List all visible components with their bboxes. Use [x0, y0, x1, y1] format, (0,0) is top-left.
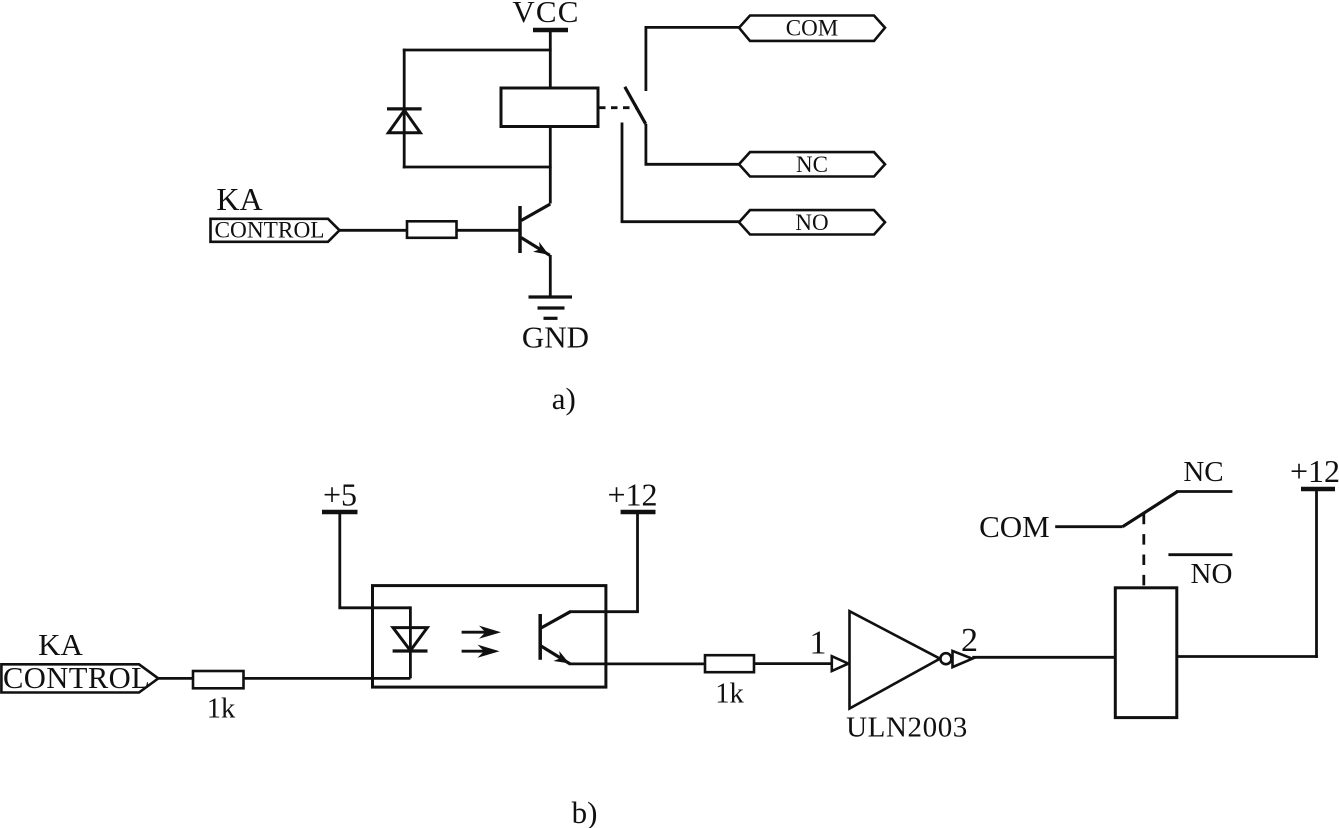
wire emitter out: [569, 663, 705, 666]
power flag +12 (middle): [607, 477, 657, 513]
wire diode branch vertical: [403, 49, 406, 169]
relay actuation dashed link: [599, 106, 637, 109]
wire emitter to ground: [549, 255, 552, 298]
svg-text:KA: KA: [216, 181, 262, 217]
connector NO: [739, 210, 885, 235]
connector CONTROL (b): [1, 661, 158, 695]
ground: [529, 297, 573, 318]
wire bottom horizontal of diode loop: [403, 166, 552, 169]
LED of optocoupler: [393, 606, 428, 678]
connector NC: [739, 152, 885, 177]
power flag VCC: [512, 0, 579, 30]
svg-text:CONTROL: CONTROL: [3, 661, 150, 695]
svg-text:1k: 1k: [207, 694, 236, 725]
wire +5 down: [338, 512, 341, 608]
svg-text:a): a): [552, 381, 576, 416]
wire +5 to LED anode: [338, 606, 410, 609]
switch blade (b): [1123, 492, 1178, 527]
svg-text:+12: +12: [607, 477, 657, 513]
relay coil K1: [501, 88, 598, 127]
svg-text:NC: NC: [1183, 456, 1223, 488]
output arrowhead pin 2: [953, 651, 973, 667]
optocoupler U1 body: [373, 586, 606, 688]
wire +12 down to collector: [636, 512, 639, 612]
wire top horizontal: [403, 49, 552, 52]
switch blade: [625, 87, 646, 124]
svg-text:COM: COM: [786, 15, 838, 40]
wire NC lead: [645, 124, 740, 165]
svg-text:1k: 1k: [715, 678, 744, 709]
wire control to R1b: [158, 677, 193, 680]
wire VCC to relay coil: [549, 30, 552, 90]
connector COM: [739, 15, 885, 41]
svg-text:KA: KA: [38, 627, 83, 662]
phototransistor of optocoupler: [540, 612, 570, 664]
svg-text:1: 1: [810, 625, 827, 662]
wire to inverter input: [754, 662, 832, 665]
svg-text:NO: NO: [795, 210, 828, 235]
inverter U2 ULN2003: [850, 611, 941, 708]
svg-text:COM: COM: [979, 509, 1050, 544]
transistor Q1: [520, 204, 550, 255]
wire control to resistor: [340, 229, 408, 232]
connector CONTROL (a): [211, 217, 340, 243]
NO contact stub: [1168, 553, 1232, 556]
svg-text:CONTROL: CONTROL: [215, 217, 325, 243]
wire COM stub: [1055, 525, 1122, 528]
resistor 1k input: [193, 671, 244, 688]
wire NO lead: [621, 123, 740, 222]
relay coil K2: [1115, 588, 1177, 718]
svg-text:GND: GND: [522, 320, 589, 355]
light arrow 1: [462, 626, 501, 639]
dashed actuation link: [1142, 514, 1145, 588]
resistor 1k output: [705, 655, 754, 672]
wire R1b to LED: [244, 677, 411, 680]
svg-text:NC: NC: [796, 152, 828, 177]
svg-text:2: 2: [961, 622, 978, 659]
inverter bubble: [940, 653, 951, 664]
wire relay coil to collector: [549, 125, 552, 204]
svg-text:ULN2003: ULN2003: [846, 711, 968, 743]
svg-text:+12: +12: [1290, 453, 1339, 489]
svg-text:NO: NO: [1191, 558, 1233, 590]
svg-text:b): b): [572, 795, 598, 828]
wire resistor to base: [457, 229, 521, 232]
wire collector to +12: [569, 610, 639, 613]
wire inverter to relay coil: [972, 656, 1115, 659]
light arrow 2: [462, 645, 500, 658]
input arrowhead pin 1: [832, 656, 849, 671]
resistor R1: [407, 221, 457, 238]
svg-text:VCC: VCC: [512, 0, 579, 29]
power flag +12 (right): [1290, 453, 1339, 489]
power flag +5: [322, 477, 358, 513]
svg-text:+5: +5: [323, 477, 357, 513]
wire COM lead: [645, 27, 740, 91]
wire relay coil to +12: [1177, 655, 1318, 658]
NC contact stub: [1176, 490, 1232, 493]
wire right riser: [1315, 489, 1318, 658]
diode D1: [387, 109, 422, 133]
